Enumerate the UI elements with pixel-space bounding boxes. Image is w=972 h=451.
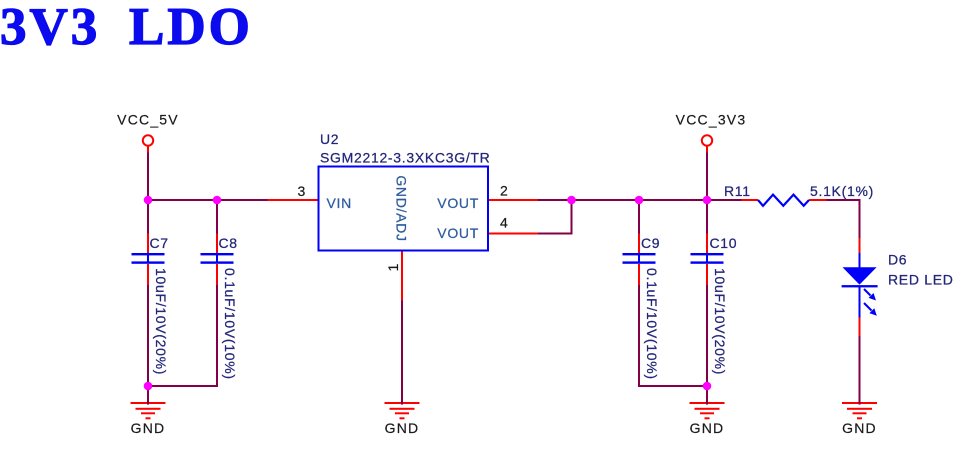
svg-text:4: 4 <box>500 215 509 231</box>
svg-text:D6: D6 <box>888 252 907 268</box>
svg-text:R11: R11 <box>724 183 751 199</box>
svg-text:RED LED: RED LED <box>888 271 954 287</box>
svg-text:SGM2212-3.3XKC3G/TR: SGM2212-3.3XKC3G/TR <box>320 150 490 166</box>
svg-text:3: 3 <box>298 183 307 199</box>
svg-text:VCC_3V3: VCC_3V3 <box>676 111 747 127</box>
svg-text:GND: GND <box>131 420 166 436</box>
svg-text:10uF/10V(20%): 10uF/10V(20%) <box>712 268 728 375</box>
svg-text:0.1uF/10V(10%): 0.1uF/10V(10%) <box>644 268 660 380</box>
svg-text:C8: C8 <box>219 235 238 251</box>
svg-text:10uF/10V(20%): 10uF/10V(20%) <box>153 268 169 375</box>
svg-text:3V3 LDO: 3V3 LDO <box>0 0 253 56</box>
svg-text:GND/ADJ: GND/ADJ <box>394 175 410 241</box>
svg-text:VIN: VIN <box>327 195 352 211</box>
svg-text:VCC_5V: VCC_5V <box>117 111 179 127</box>
svg-text:VOUT: VOUT <box>437 225 479 241</box>
svg-text:GND: GND <box>385 420 420 436</box>
svg-text:5.1K(1%): 5.1K(1%) <box>810 183 874 199</box>
svg-text:VOUT: VOUT <box>437 195 479 211</box>
svg-text:GND: GND <box>690 420 725 436</box>
svg-text:GND: GND <box>842 420 877 436</box>
svg-text:C9: C9 <box>641 235 660 251</box>
svg-text:1: 1 <box>385 263 401 272</box>
svg-text:2: 2 <box>500 183 509 199</box>
svg-text:U2: U2 <box>320 131 339 147</box>
svg-text:C7: C7 <box>150 235 169 251</box>
svg-text:C10: C10 <box>710 235 738 251</box>
svg-text:0.1uF/10V(10%): 0.1uF/10V(10%) <box>222 268 238 380</box>
